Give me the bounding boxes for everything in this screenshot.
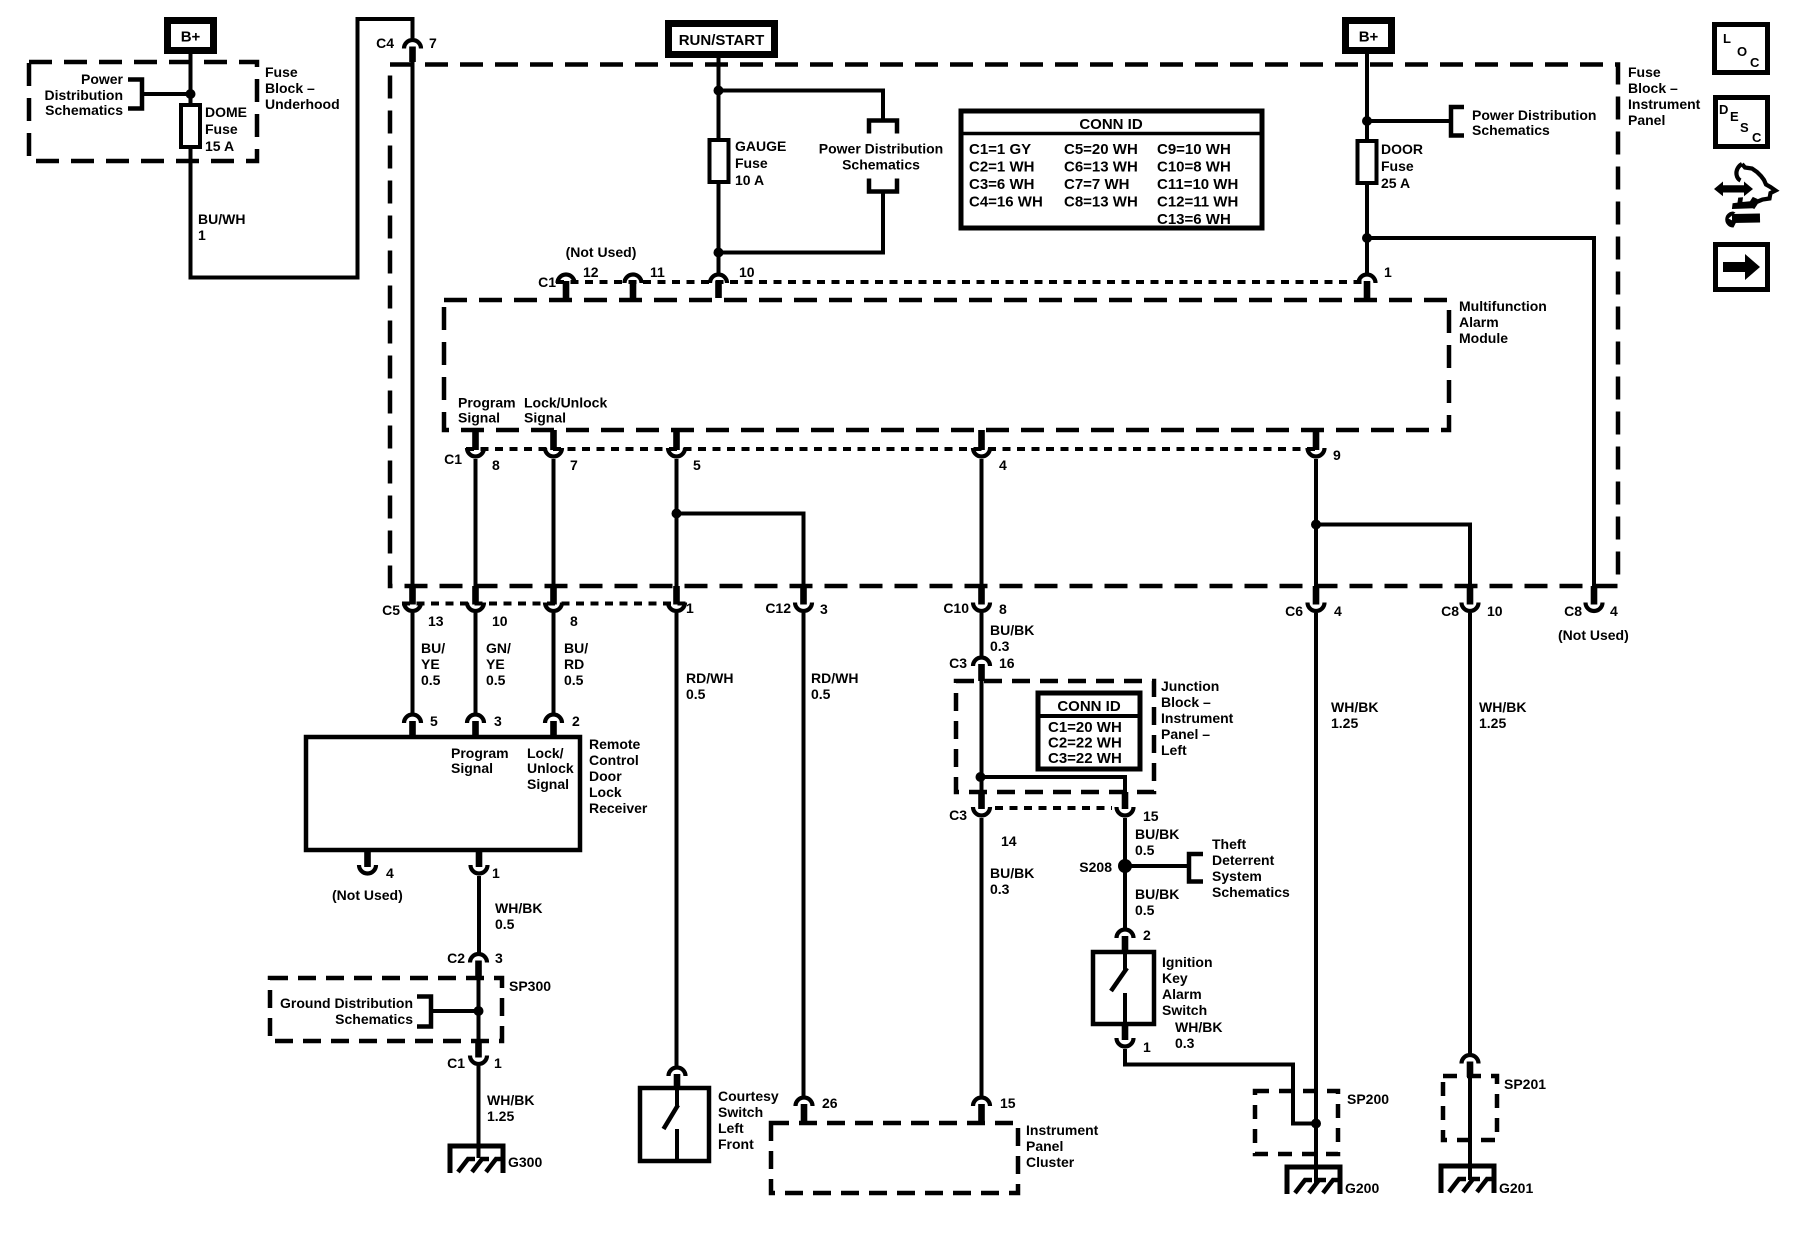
- svg-text:Program: Program: [451, 745, 509, 761]
- wire pin 5 down to C5 pin 1: [675, 459, 679, 589]
- svg-text:O: O: [1737, 44, 1747, 59]
- svg-text:GAUGE: GAUGE: [735, 138, 786, 154]
- connector cluster pin 26: [796, 1098, 813, 1107]
- ignition feed RUN/START: [669, 24, 775, 55]
- battery feed B+ (left): [168, 21, 214, 51]
- svg-text:1.25: 1.25: [1331, 715, 1358, 731]
- SP201 dashed box: [1443, 1076, 1497, 1140]
- switch blade (courtesy): [675, 1088, 679, 1107]
- svg-text:C1=1 GY: C1=1 GY: [969, 141, 1031, 158]
- svg-text:C8=13 WH: C8=13 WH: [1064, 194, 1138, 211]
- connector ignition switch pin 1: [1117, 1038, 1134, 1047]
- svg-text:13: 13: [428, 613, 444, 629]
- svg-text:BU/: BU/: [564, 640, 588, 656]
- svg-text:Front: Front: [718, 1136, 754, 1152]
- svg-text:Remote: Remote: [589, 736, 641, 752]
- wire to G300, WH/BK 1.25: [477, 1066, 481, 1158]
- svg-text:0.5: 0.5: [421, 672, 441, 688]
- svg-text:4: 4: [999, 457, 1007, 473]
- svg-text:12: 12: [583, 264, 599, 280]
- node at DOME fuse top: [186, 89, 196, 99]
- small CONN ID table: [1038, 693, 1140, 769]
- svg-text:RD/WH: RD/WH: [686, 670, 733, 686]
- branch wire to C8 pin 10: [1316, 525, 1470, 590]
- wire inside junction block: [980, 681, 984, 792]
- svg-text:10: 10: [1487, 603, 1503, 619]
- svg-text:8: 8: [999, 601, 1007, 617]
- svg-text:4: 4: [1334, 603, 1342, 619]
- svg-text:11: 11: [650, 264, 665, 280]
- svg-text:C4=16 WH: C4=16 WH: [969, 194, 1043, 211]
- connector receiver pin 2: [545, 715, 562, 724]
- connector C5 pin 8: [545, 603, 562, 612]
- svg-text:Block –: Block –: [1161, 694, 1211, 710]
- svg-text:Signal: Signal: [524, 410, 566, 426]
- bracket ground distribution: [417, 997, 431, 1027]
- svg-text:Power Distribution: Power Distribution: [819, 141, 943, 157]
- svg-text:Signal: Signal: [458, 410, 500, 426]
- svg-text:8: 8: [492, 457, 500, 473]
- svg-text:4: 4: [386, 865, 394, 881]
- svg-text:C3: C3: [949, 655, 967, 671]
- svg-text:L: L: [1723, 31, 1731, 46]
- svg-text:0.5: 0.5: [1135, 842, 1155, 858]
- svg-text:Ignition: Ignition: [1162, 954, 1213, 970]
- svg-text:C12=11 WH: C12=11 WH: [1157, 194, 1238, 211]
- svg-text:C9=10 WH: C9=10 WH: [1157, 141, 1231, 158]
- svg-text:3: 3: [494, 713, 502, 729]
- svg-text:C5: C5: [382, 602, 400, 618]
- svg-text:C7=7 WH: C7=7 WH: [1064, 176, 1129, 193]
- node below DOOR fuse: [1362, 233, 1372, 243]
- svg-text:1: 1: [1384, 264, 1392, 280]
- switch blade (ignition): [1123, 952, 1127, 970]
- svg-text:Schematics: Schematics: [1212, 884, 1290, 900]
- connector C1 pin 10: [710, 275, 727, 284]
- svg-text:Receiver: Receiver: [589, 800, 648, 816]
- connector receiver pin 1: [471, 865, 488, 874]
- svg-text:Power Distribution: Power Distribution: [1472, 107, 1596, 123]
- wire BU/WH 1 from DOME fuse to C4: [191, 19, 413, 278]
- svg-text:BU/: BU/: [421, 640, 445, 656]
- svg-text:E: E: [1730, 109, 1739, 124]
- bracket theft deterrent: [1189, 854, 1203, 882]
- svg-text:Program: Program: [458, 395, 516, 411]
- svg-text:Panel –: Panel –: [1161, 726, 1210, 742]
- svg-text:Block –: Block –: [265, 80, 315, 96]
- wire B+ down to DOOR fuse: [1365, 54, 1369, 143]
- svg-text:0.5: 0.5: [811, 686, 831, 702]
- svg-text:S208: S208: [1079, 859, 1112, 875]
- ground G300: [450, 1146, 503, 1173]
- node below GAUGE fuse: [714, 248, 724, 258]
- node SP200: [1311, 1119, 1321, 1129]
- svg-text:C2=22 WH: C2=22 WH: [1048, 735, 1122, 752]
- junction block dashed box: [956, 681, 1154, 792]
- icon double arrow with outline and wrench: [1714, 182, 1753, 197]
- svg-text:15: 15: [1000, 1095, 1016, 1111]
- svg-text:5: 5: [430, 713, 438, 729]
- wire C6-4 down, WH/BK 1.25: [1314, 613, 1318, 1183]
- wire node to power distribution bracket: [719, 91, 884, 123]
- connector above SP201: [1462, 1055, 1479, 1064]
- svg-text:Key: Key: [1162, 970, 1188, 986]
- svg-text:C3: C3: [949, 807, 967, 823]
- svg-text:Left: Left: [1161, 742, 1187, 758]
- svg-text:B+: B+: [181, 29, 201, 46]
- connector C1 pin 7: [545, 448, 562, 457]
- svg-text:Instrument: Instrument: [1026, 1122, 1099, 1138]
- connector C5 pin 13: [404, 603, 421, 612]
- connector cluster pin 15: [973, 1098, 990, 1107]
- svg-text:C8: C8: [1441, 603, 1459, 619]
- svg-text:BU/BK: BU/BK: [1135, 886, 1179, 902]
- svg-text:CONN ID: CONN ID: [1057, 698, 1121, 715]
- svg-text:1: 1: [494, 1055, 502, 1071]
- connector C1 pin 11 (not used): [625, 275, 642, 284]
- wire through SP201 to G201: [1468, 1077, 1472, 1180]
- connector C3 pin 14: [973, 807, 990, 816]
- dotted connector line C1 top row: [556, 280, 1367, 284]
- svg-text:14: 14: [1001, 833, 1017, 849]
- connector C1 pin 1 (below SP300): [470, 1056, 487, 1065]
- svg-text:C2=1 WH: C2=1 WH: [969, 159, 1034, 176]
- connector C5 pin 10: [467, 603, 484, 612]
- wrench: [1725, 212, 1736, 228]
- svg-text:Fuse: Fuse: [1628, 64, 1661, 80]
- icon DESC box: [1716, 98, 1768, 147]
- connector C3 pin 15: [1117, 807, 1134, 816]
- svg-text:C4: C4: [376, 35, 394, 51]
- svg-text:Signal: Signal: [527, 776, 569, 792]
- svg-text:BU/WH: BU/WH: [198, 211, 245, 227]
- svg-text:Distribution: Distribution: [44, 87, 123, 103]
- svg-text:C6=13 WH: C6=13 WH: [1064, 159, 1138, 176]
- wire from bracket back to main wire: [719, 190, 884, 253]
- svg-text:Instrument: Instrument: [1628, 96, 1701, 112]
- svg-text:1: 1: [686, 600, 694, 616]
- node SP300: [474, 1006, 484, 1016]
- wire C12-3 down, RD/WH 0.5: [802, 613, 806, 1096]
- wire C3-15 down, BU/BK 0.5: [1123, 818, 1127, 929]
- svg-text:5: 5: [693, 457, 701, 473]
- wire pin 4 to C10 pin 8: [980, 459, 984, 589]
- svg-text:Module: Module: [1459, 330, 1508, 346]
- svg-text:G200: G200: [1345, 1180, 1379, 1196]
- wire C5-8 to receiver pin 2, BU/RD 0.5: [552, 613, 556, 713]
- svg-text:0.5: 0.5: [495, 916, 515, 932]
- svg-text:2: 2: [572, 713, 580, 729]
- svg-text:1.25: 1.25: [487, 1108, 514, 1124]
- svg-text:GN/: GN/: [486, 640, 511, 656]
- svg-text:C2: C2: [447, 950, 465, 966]
- wire through SP300: [477, 966, 481, 1043]
- svg-text:Junction: Junction: [1161, 678, 1219, 694]
- svg-text:2: 2: [1143, 927, 1151, 943]
- bracket top (power distribution): [869, 121, 897, 134]
- svg-text:G201: G201: [1499, 1180, 1533, 1196]
- wire receiver pin1 down, WH/BK 0.5: [477, 876, 481, 953]
- wire to C8 pin 4: [1367, 238, 1594, 589]
- wire node to bracket (right): [1367, 119, 1451, 123]
- svg-text:Control: Control: [589, 752, 639, 768]
- svg-text:Power: Power: [81, 71, 124, 87]
- svg-text:10 A: 10 A: [735, 172, 764, 188]
- connector receiver pin 3: [467, 715, 484, 724]
- svg-text:G300: G300: [508, 1154, 542, 1170]
- svg-text:1.25: 1.25: [1479, 715, 1506, 731]
- wire pin 8 to C5 pin 10: [474, 459, 478, 589]
- svg-text:15 A: 15 A: [205, 138, 234, 154]
- battery feed B+ (right): [1346, 21, 1392, 51]
- svg-text:Fuse: Fuse: [735, 155, 768, 171]
- connector C5 pin 1: [668, 603, 685, 612]
- connector receiver pin 4 (not used): [359, 865, 376, 874]
- svg-text:Ground Distribution: Ground Distribution: [280, 995, 413, 1011]
- svg-text:0.3: 0.3: [1175, 1035, 1195, 1051]
- svg-text:C6: C6: [1285, 603, 1303, 619]
- node on pin9 wire: [1311, 520, 1321, 530]
- wire B+ down to DOME fuse: [189, 54, 193, 106]
- fuse block instrument panel dashed box: [390, 65, 1618, 587]
- svg-text:Switch: Switch: [718, 1104, 763, 1120]
- svg-text:15: 15: [1143, 808, 1159, 824]
- svg-text:1: 1: [492, 865, 500, 881]
- svg-text:16: 16: [999, 655, 1015, 671]
- svg-text:(Not Used): (Not Used): [1558, 627, 1629, 643]
- svg-text:Courtesy: Courtesy: [718, 1088, 779, 1104]
- svg-text:C1=20 WH: C1=20 WH: [1048, 719, 1122, 736]
- svg-text:(Not Used): (Not Used): [566, 244, 637, 260]
- svg-text:C13=6 WH: C13=6 WH: [1157, 211, 1231, 228]
- connector C1 pin 1: [1359, 275, 1376, 284]
- svg-text:BU/BK: BU/BK: [990, 622, 1034, 638]
- svg-text:1: 1: [1143, 1039, 1151, 1055]
- svg-text:9: 9: [1333, 447, 1341, 463]
- ground G201: [1441, 1166, 1494, 1193]
- svg-text:Panel: Panel: [1628, 112, 1665, 128]
- node above GAUGE fuse: [714, 86, 724, 96]
- wire C5-13 to receiver pin 5, BU/YE 0.5: [411, 613, 415, 713]
- svg-text:Left: Left: [718, 1120, 744, 1136]
- multifunction alarm module dashed box: [444, 300, 1449, 430]
- svg-text:Door: Door: [589, 768, 622, 784]
- remote control door lock receiver box: [306, 737, 580, 850]
- fuse DOOR 25 A: [1358, 141, 1377, 183]
- svg-text:C1: C1: [447, 1055, 465, 1071]
- wire C8-10 down, WH/BK 1.25: [1468, 613, 1472, 1054]
- svg-text:10: 10: [739, 264, 755, 280]
- wire RUN/START down: [717, 58, 721, 142]
- svg-text:(Not Used): (Not Used): [332, 887, 403, 903]
- svg-text:Lock/: Lock/: [527, 745, 564, 761]
- svg-text:0.3: 0.3: [990, 638, 1010, 654]
- connector receiver pin 5: [404, 715, 421, 724]
- SP300 dashed box: [270, 978, 502, 1041]
- bracket to Power Distribution Schematics: [128, 80, 142, 109]
- node above DOOR fuse: [1362, 116, 1372, 126]
- svg-text:Switch: Switch: [1162, 1002, 1207, 1018]
- svg-text:7: 7: [429, 35, 437, 51]
- courtesy switch box: [640, 1088, 709, 1161]
- connector C1 pin 9: [1308, 448, 1325, 457]
- svg-text:C1: C1: [444, 451, 462, 467]
- wire pin 9 down to C6 pin 4: [1314, 459, 1318, 589]
- svg-text:YE: YE: [421, 656, 440, 672]
- svg-text:26: 26: [822, 1095, 838, 1111]
- fuse block underhood dashed box: [29, 62, 257, 161]
- svg-text:C1: C1: [538, 274, 556, 290]
- ignition key alarm switch box: [1093, 952, 1154, 1024]
- svg-text:0.5: 0.5: [564, 672, 584, 688]
- dotted connector line C5 row: [402, 602, 688, 606]
- icon arrow box: [1716, 245, 1768, 290]
- svg-text:RUN/START: RUN/START: [679, 32, 765, 49]
- svg-text:Theft: Theft: [1212, 836, 1247, 852]
- svg-text:WH/BK: WH/BK: [1331, 699, 1378, 715]
- svg-text:B+: B+: [1359, 29, 1379, 46]
- SP200 dashed box: [1255, 1091, 1338, 1154]
- svg-text:YE: YE: [486, 656, 505, 672]
- svg-text:RD: RD: [564, 656, 584, 672]
- instrument panel cluster dashed box: [771, 1123, 1018, 1193]
- svg-text:Schematics: Schematics: [842, 157, 920, 173]
- svg-text:Cluster: Cluster: [1026, 1154, 1075, 1170]
- svg-text:Schematics: Schematics: [335, 1011, 413, 1027]
- svg-text:0.3: 0.3: [990, 881, 1010, 897]
- svg-text:Instrument: Instrument: [1161, 710, 1234, 726]
- bracket to Power Distribution Schematics (right): [1451, 107, 1464, 136]
- svg-text:8: 8: [570, 613, 578, 629]
- svg-text:10: 10: [492, 613, 508, 629]
- svg-text:BU/BK: BU/BK: [990, 865, 1034, 881]
- svg-text:CONN ID: CONN ID: [1079, 116, 1143, 133]
- svg-text:D: D: [1719, 102, 1728, 117]
- svg-text:Fuse: Fuse: [265, 64, 298, 80]
- connector C3 pin 16: [973, 658, 990, 667]
- connector C1 pin 8: [467, 448, 484, 457]
- svg-text:Multifunction: Multifunction: [1459, 298, 1547, 314]
- bracket bottom (power distribution): [869, 179, 897, 192]
- svg-text:Alarm: Alarm: [1162, 986, 1202, 1002]
- branch wire to C12 pin 3: [677, 514, 804, 590]
- svg-text:Unlock: Unlock: [527, 760, 574, 776]
- svg-text:0.5: 0.5: [486, 672, 506, 688]
- connector ignition switch pin 2: [1117, 930, 1134, 939]
- connector C4 pin 7: [404, 40, 421, 49]
- connector C2 pin 3 (SP300): [470, 954, 487, 962]
- svg-text:WH/BK: WH/BK: [1479, 699, 1526, 715]
- wire C3-14 down to cluster pin 15: [980, 818, 984, 1096]
- svg-text:Block –: Block –: [1628, 80, 1678, 96]
- svg-text:DOOR: DOOR: [1381, 141, 1423, 157]
- svg-text:Schematics: Schematics: [45, 102, 123, 118]
- fuse DOME 15 A: [181, 105, 200, 147]
- svg-text:25 A: 25 A: [1381, 175, 1410, 191]
- wire ignition pin 1 to SP200: [1125, 1049, 1316, 1124]
- svg-text:C10=8 WH: C10=8 WH: [1157, 159, 1231, 176]
- svg-text:4: 4: [1610, 603, 1618, 619]
- wire C4 pin7 down to C5 pin 13: [411, 62, 415, 589]
- dotted connector line C3 row: [995, 806, 1112, 810]
- svg-text:C3=6 WH: C3=6 WH: [969, 176, 1034, 193]
- svg-text:C: C: [1750, 55, 1760, 70]
- connector C1 pin 4: [973, 448, 990, 457]
- connector C1 pin 5: [668, 448, 685, 457]
- node on pin5 wire: [672, 509, 682, 519]
- svg-text:C: C: [1752, 130, 1762, 145]
- svg-text:Underhood: Underhood: [265, 96, 340, 112]
- wire bracket to node: [142, 92, 191, 96]
- svg-text:1: 1: [198, 227, 206, 243]
- dotted connector line C1 bottom row: [466, 447, 1316, 451]
- svg-text:C11=10 WH: C11=10 WH: [1157, 176, 1238, 193]
- svg-text:Fuse: Fuse: [205, 121, 238, 137]
- svg-text:3: 3: [820, 601, 828, 617]
- svg-text:Schematics: Schematics: [1472, 122, 1550, 138]
- splice S208: [1118, 859, 1132, 873]
- fuse GAUGE 10 A: [710, 140, 729, 182]
- icon LOC box: [1715, 25, 1768, 73]
- svg-text:BU/BK: BU/BK: [1135, 826, 1179, 842]
- connector above courtesy switch: [669, 1068, 686, 1077]
- svg-text:C10: C10: [943, 600, 969, 616]
- svg-text:WH/BK: WH/BK: [495, 900, 542, 916]
- svg-text:Panel: Panel: [1026, 1138, 1063, 1154]
- svg-text:Signal: Signal: [451, 760, 493, 776]
- svg-text:Lock/Unlock: Lock/Unlock: [524, 395, 607, 411]
- svg-text:3: 3: [495, 950, 503, 966]
- svg-text:Deterrent: Deterrent: [1212, 852, 1275, 868]
- svg-text:WH/BK: WH/BK: [487, 1092, 534, 1108]
- svg-text:RD/WH: RD/WH: [811, 670, 858, 686]
- wire bracket to node: [431, 1009, 479, 1013]
- svg-text:0.5: 0.5: [686, 686, 706, 702]
- wire pin 7 to C5 pin 8: [552, 459, 556, 589]
- svg-text:SP201: SP201: [1504, 1076, 1546, 1092]
- svg-text:0.5: 0.5: [1135, 902, 1155, 918]
- svg-text:Fuse: Fuse: [1381, 158, 1414, 174]
- svg-text:SP200: SP200: [1347, 1091, 1389, 1107]
- branch wire to C3 pin 15: [981, 777, 1126, 792]
- svg-text:C8: C8: [1564, 603, 1582, 619]
- svg-text:Lock: Lock: [589, 784, 622, 800]
- svg-text:SP300: SP300: [509, 978, 551, 994]
- wire C5-1 down, RD/WH 0.5: [675, 613, 679, 1066]
- wire S208 to bracket: [1125, 864, 1189, 868]
- svg-text:7: 7: [570, 457, 578, 473]
- wire C5-10 to receiver pin 3, GN/YE 0.5: [474, 613, 478, 713]
- svg-text:C5=20 WH: C5=20 WH: [1064, 141, 1138, 158]
- svg-text:WH/BK: WH/BK: [1175, 1019, 1222, 1035]
- wire DOOR fuse down to module pin 1: [1365, 182, 1369, 273]
- connector C1 pin 12 (not used): [558, 275, 575, 284]
- svg-text:C12: C12: [765, 600, 791, 616]
- svg-text:C3=22 WH: C3=22 WH: [1048, 750, 1122, 767]
- wire GAUGE fuse to module pin 10: [717, 182, 721, 273]
- ground G200: [1287, 1167, 1340, 1194]
- svg-text:S: S: [1740, 120, 1749, 135]
- svg-text:Alarm: Alarm: [1459, 314, 1499, 330]
- wire C10-8 down, BU/BK 0.3: [980, 613, 984, 657]
- node in junction block: [976, 772, 986, 782]
- svg-text:DOME: DOME: [205, 104, 247, 120]
- svg-text:System: System: [1212, 868, 1262, 884]
